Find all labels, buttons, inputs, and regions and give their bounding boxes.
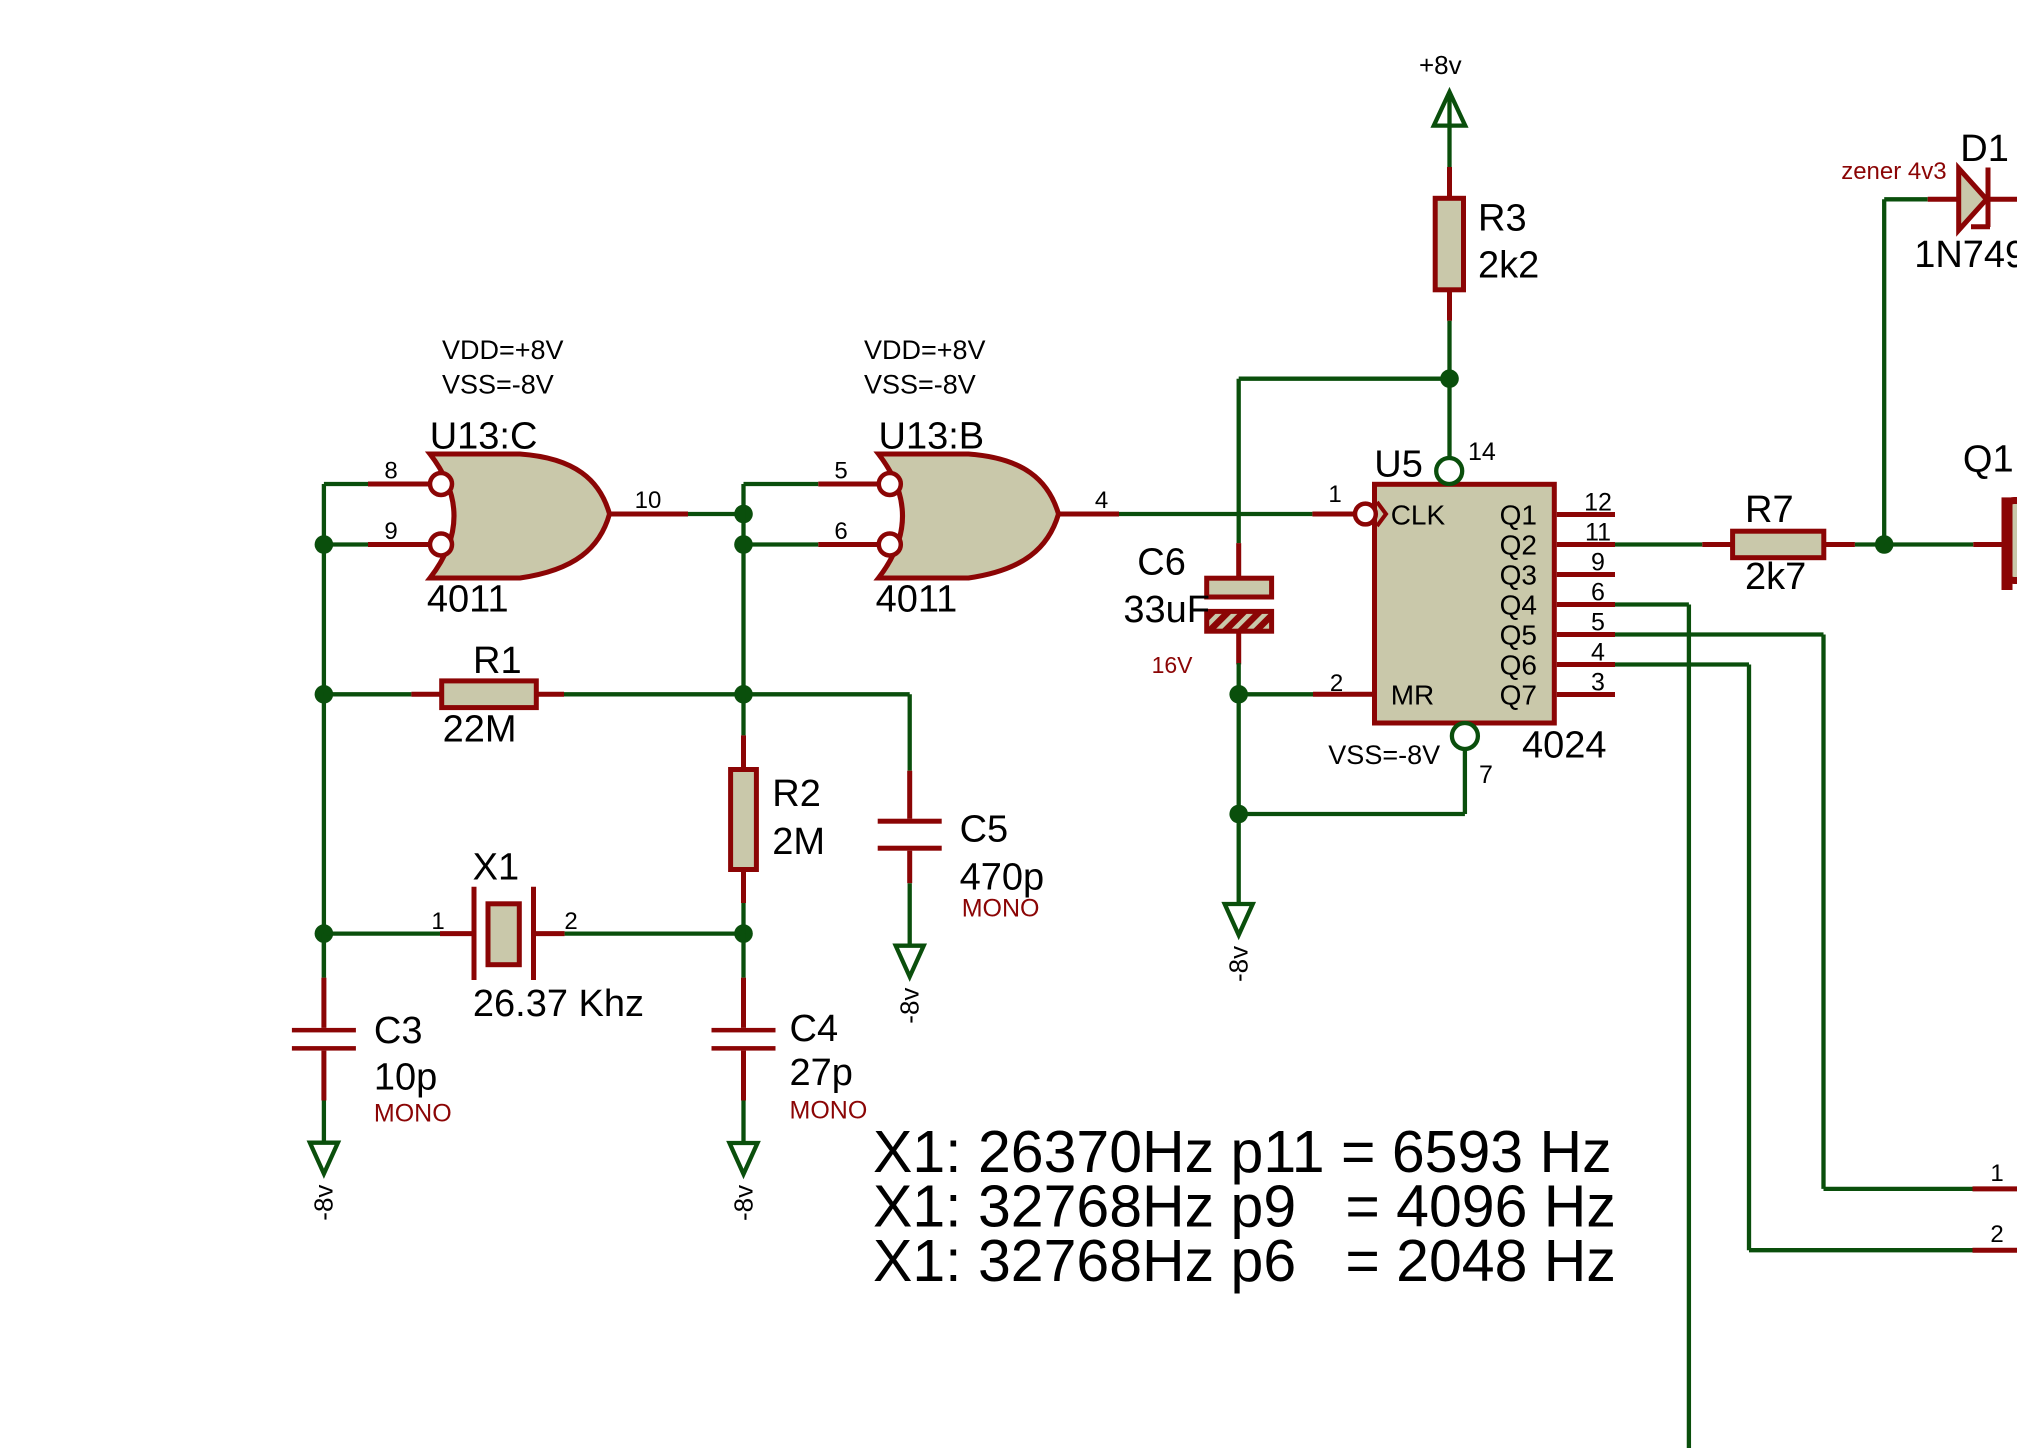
resistor R7 2k7	[1733, 489, 1824, 598]
svg-text:7: 7	[1479, 761, 1493, 789]
ground -8v under C5	[895, 883, 925, 1024]
left feedback rail	[322, 484, 326, 978]
wire C3 top green	[322, 934, 326, 978]
svg-text:Q4: Q4	[1500, 590, 1537, 621]
svg-text:VDD=+8V: VDD=+8V	[864, 335, 986, 365]
resistor R1 22M	[324, 640, 744, 751]
wire pin 9	[324, 542, 430, 546]
wire U13:C output pin 10	[610, 487, 744, 514]
svg-text:6: 6	[834, 518, 847, 545]
IC U5 4024 body	[1328, 443, 1606, 770]
svg-text:VSS=-8V: VSS=-8V	[1328, 740, 1440, 770]
wire junction to pin14 circle	[1447, 379, 1451, 459]
svg-text:4: 4	[1095, 487, 1108, 514]
svg-text:CLK: CLK	[1391, 500, 1446, 531]
U5 pin 9 stub	[1557, 549, 1615, 577]
ground -8v under C4	[728, 1101, 758, 1222]
node rail/X1	[315, 924, 334, 943]
svg-text:1: 1	[1328, 481, 1341, 508]
wire Q2 to R7	[1615, 542, 1733, 546]
svg-text:26.37 Khz: 26.37 Khz	[473, 983, 644, 1025]
U5 pin 14 circle	[1436, 438, 1496, 484]
node C6/MR junction	[1229, 685, 1248, 704]
svg-text:-8v: -8v	[1224, 946, 1254, 982]
svg-text:2: 2	[564, 908, 577, 935]
wire R3 to junction	[1447, 290, 1452, 379]
gate U13:C 4011	[427, 415, 610, 620]
ground -8v under C3	[309, 1101, 339, 1221]
svg-text:MR: MR	[1391, 679, 1435, 710]
capacitor C5 470p MONO	[878, 771, 1044, 923]
svg-text:2: 2	[1330, 670, 1343, 697]
svg-text:VDD=+8V: VDD=+8V	[442, 335, 564, 365]
U5 pin 4 stub	[1557, 639, 1615, 667]
svg-text:MONO: MONO	[790, 1096, 868, 1124]
svg-text:16V: 16V	[1152, 652, 1194, 678]
svg-text:9: 9	[1591, 549, 1605, 577]
U5 CLK input bubble pin 1	[1328, 481, 1386, 526]
node rail/R1	[315, 685, 334, 704]
node mid rail/X1	[734, 924, 753, 943]
wire C6 to MR junction	[1237, 663, 1241, 694]
wire R1 junction to C5 branch	[744, 694, 910, 771]
wire MR pin 2	[1239, 670, 1372, 697]
U5 pin 7 circle	[1452, 723, 1493, 789]
node R7/D1/Q1 junction	[1875, 535, 1894, 554]
svg-text:470p: 470p	[960, 856, 1045, 898]
svg-text:5: 5	[834, 458, 847, 485]
U13:B VDD/VSS note	[864, 335, 986, 399]
svg-text:2: 2	[1990, 1221, 2003, 1248]
svg-text:3: 3	[1591, 669, 1605, 697]
svg-text:VSS=-8V: VSS=-8V	[442, 369, 554, 399]
capacitor C6 33uF 16V	[1123, 542, 1271, 678]
wire Q4 vertical long	[1615, 605, 1689, 1448]
svg-text:U13:C: U13:C	[430, 415, 538, 457]
transistor Q1 (partial at edge)	[1963, 439, 2017, 591]
annotation text block	[873, 1119, 1616, 1294]
U5 pin 6 stub	[1557, 579, 1615, 607]
svg-text:R2: R2	[772, 773, 821, 815]
svg-text:11: 11	[1585, 519, 1611, 547]
svg-text:zener 4v3: zener 4v3	[1841, 158, 1946, 185]
wire +8v to R3	[1447, 94, 1451, 199]
wire pin 8	[324, 482, 430, 486]
wire junction to C6 branch	[1239, 379, 1450, 543]
U5 pin names	[1391, 500, 1537, 711]
U5 pin 5 stub	[1557, 609, 1615, 637]
wire U13:B pin 6	[744, 542, 879, 546]
capacitor C3 10p MONO	[292, 978, 452, 1128]
svg-text:5: 5	[1591, 609, 1605, 637]
svg-text:6: 6	[1591, 579, 1605, 607]
U13:C input bubble pin 9	[384, 518, 452, 556]
U13:C VDD/VSS note	[442, 335, 564, 399]
svg-text:D1: D1	[1960, 128, 2009, 170]
svg-text:Q5: Q5	[1500, 620, 1537, 651]
U5 pin 3 stub	[1557, 669, 1615, 697]
node R3/U5 pin14 junction	[1440, 369, 1459, 388]
wire pin7 to VSS junction	[1239, 749, 1465, 814]
capacitor C4 27p MONO	[712, 934, 868, 1125]
svg-text:12: 12	[1584, 489, 1612, 517]
wire junction up to D1	[1884, 199, 1959, 544]
svg-text:-8v: -8v	[895, 988, 925, 1024]
svg-text:10: 10	[635, 487, 662, 514]
svg-text:Q7: Q7	[1500, 680, 1537, 711]
wire R7 to junction	[1824, 542, 1884, 547]
svg-text:22M: 22M	[443, 709, 517, 751]
svg-text:4011: 4011	[427, 579, 509, 621]
svg-text:U5: U5	[1374, 443, 1423, 485]
crystal X1 26.37 Khz	[324, 847, 744, 1025]
wire junction to Q1 base	[1884, 542, 2003, 546]
svg-text:4: 4	[1591, 639, 1605, 667]
wire Q6 to connector pin 2	[1615, 665, 2017, 1251]
resistor R3 2k2	[1435, 198, 1539, 290]
node mid rail/pin6	[734, 535, 753, 554]
svg-text:MONO: MONO	[962, 895, 1040, 923]
svg-text:14: 14	[1468, 438, 1496, 466]
svg-text:4011: 4011	[876, 579, 958, 621]
svg-text:MONO: MONO	[374, 1100, 452, 1128]
svg-text:-8v: -8v	[728, 1185, 758, 1221]
wire U13:B pin 5	[744, 482, 879, 486]
svg-text:2k2: 2k2	[1478, 245, 1539, 287]
svg-text:R7: R7	[1745, 489, 1794, 531]
power +8v	[1419, 50, 1465, 126]
svg-text:1: 1	[431, 908, 444, 935]
svg-text:Q1: Q1	[1963, 439, 2014, 481]
svg-text:C4: C4	[790, 1008, 839, 1050]
svg-text:33uF: 33uF	[1123, 589, 1210, 631]
svg-text:U13:B: U13:B	[879, 415, 985, 457]
U13:B input bubble pin 5	[834, 458, 900, 496]
svg-text:C6: C6	[1137, 542, 1186, 584]
node gate1 out junction	[734, 505, 753, 524]
svg-text:1: 1	[1990, 1160, 2003, 1187]
svg-text:-8v: -8v	[309, 1185, 339, 1221]
gate U13:B 4011	[876, 415, 1059, 620]
svg-text:Q2: Q2	[1500, 530, 1537, 561]
svg-text:Q3: Q3	[1500, 560, 1537, 591]
node VSS junction	[1229, 805, 1248, 824]
svg-text:R1: R1	[473, 640, 522, 682]
wire Q5 to connector pin 1	[1615, 635, 2017, 1189]
middle rail	[741, 484, 745, 735]
node rail/pin9	[315, 535, 334, 554]
node mid rail/R1	[734, 685, 753, 704]
svg-text:X1: 32768Hz p6 = 2048 Hz: X1: 32768Hz p6 = 2048 Hz	[873, 1228, 1616, 1294]
svg-text:R3: R3	[1478, 198, 1527, 240]
svg-text:Q6: Q6	[1500, 650, 1537, 681]
wire U13:B output pin 4 to CLK	[1059, 487, 1356, 514]
svg-text:8: 8	[384, 458, 397, 485]
svg-text:2k7: 2k7	[1745, 556, 1806, 598]
svg-text:1N749: 1N749	[1914, 234, 2017, 276]
svg-text:Q1: Q1	[1500, 500, 1537, 531]
U5 pin 12 stub	[1557, 489, 1615, 517]
U5 pin 11 stub	[1557, 519, 1615, 547]
resistor R2 2M	[731, 735, 825, 933]
svg-text:2M: 2M	[772, 821, 825, 863]
svg-text:VSS=-8V: VSS=-8V	[864, 369, 976, 399]
ground -8v under C6	[1224, 814, 1254, 982]
svg-text:10p: 10p	[374, 1057, 437, 1099]
svg-text:4024: 4024	[1522, 725, 1607, 767]
diode D1 zener 1N749	[1841, 128, 2017, 276]
svg-text:C3: C3	[374, 1010, 423, 1052]
wire junction down to lower node	[1237, 694, 1241, 814]
U13:C input bubble pin 8	[384, 458, 452, 496]
svg-text:27p: 27p	[790, 1052, 853, 1094]
svg-text:X1: X1	[473, 847, 519, 889]
svg-text:9: 9	[384, 518, 397, 545]
svg-text:C5: C5	[960, 809, 1009, 851]
U13:B input bubble pin 6	[834, 518, 900, 556]
svg-text:+8v: +8v	[1419, 50, 1462, 80]
